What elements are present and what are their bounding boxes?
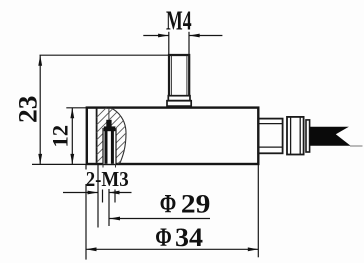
M3 hole: cap stem [106,120,111,127]
stud collar 1 [168,96,190,101]
svg-text:Φ: Φ [155,222,172,252]
dim 23: arrowheads [38,55,42,65]
gland small step (section 3) [306,120,310,152]
dim phi29: dimension line [110,218,211,220]
svg-text:23: 23 [14,96,43,124]
svg-text:Φ: Φ [160,189,177,218]
svg-text:34: 34 [175,222,203,252]
dim phi29: arrowhead [110,217,121,221]
body rectangle (sensor housing side view) [87,108,258,164]
dim 2-M3: arrowheads [88,191,99,195]
svg-text:M4: M4 [166,5,192,35]
svg-text:12: 12 [48,125,73,148]
M4 stud inner thread lines [170,56,172,95]
dim M4: extension lines [168,32,170,55]
dim 23: dimension line [39,55,41,164]
dim phi34: dimension line [86,248,258,250]
dim 2-M3: extension line through text [97,164,99,228]
dim M4: arrowheads [158,34,169,38]
svg-text:2-M3: 2-M3 [86,167,129,191]
dim phi34: arrowheads [86,247,97,251]
dim phi34: extension lines [85,164,87,170]
dim M4: dimension line tails [143,35,168,37]
dim 23: top extension line [40,54,170,56]
M3 hole: cap bar [104,126,116,131]
M3 hole white mask [103,126,116,164]
M3 hole stubs below body [102,164,104,168]
M3 hole centerline above cap [108,108,110,120]
cable gland nut (section 2) [287,117,304,155]
local section leaf boundary [111,108,127,164]
M4 stud outer lines [169,55,189,96]
M3 hole: thick inner bars [105,131,108,164]
cable tail line [350,145,363,147]
cable gland section 1 [258,119,282,154]
dim 2-M3: dimension line tails [63,192,98,194]
step line (left face line inside body) [96,108,98,164]
dim 12: arrowheads [70,108,74,119]
cable (black, with break notch) [310,127,351,146]
dim 12: top extension line [66,107,87,109]
dim 23: bottom extension line [32,163,87,165]
dim 12: dimension line [71,108,73,165]
M3 tapped hole: outer thread lines [102,128,104,164]
stud collar 2 (flange) [167,101,191,106]
svg-text:29: 29 [181,189,211,218]
